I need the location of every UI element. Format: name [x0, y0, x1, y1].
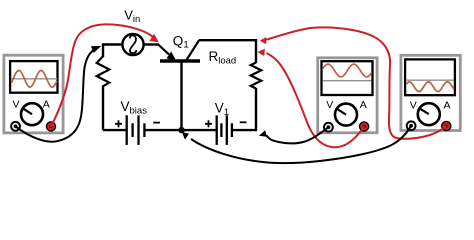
wire Vin source to Q1 emitter — [144, 43, 159, 45]
wire Rload to bottom-right corner — [233, 88, 256, 130]
wire V1 to node A — [182, 129, 216, 131]
wire left branch bottom — [102, 86, 104, 131]
probe wire black M1 to top-left corner — [16, 48, 98, 142]
instrument M1 knob — [21, 103, 43, 125]
instrument M2 knob pointer — [336, 109, 346, 115]
instrument M3 knob — [418, 103, 440, 125]
svg-text:A: A — [360, 99, 367, 111]
instrument M3 screen centerline — [406, 79, 453, 81]
probe arrow red at Rload top side — [257, 49, 265, 56]
instrument M1 waveform trace — [11, 70, 57, 87]
AC source Vin circle — [122, 34, 143, 55]
probe arrow black at node A — [182, 132, 189, 140]
instrument M1 frame — [4, 55, 63, 133]
node A junction dot — [178, 127, 184, 133]
instrument M2 frame — [318, 58, 377, 133]
transistor Q1 base lead — [180, 62, 182, 130]
probe arrow red at top-right corner — [260, 37, 266, 44]
instrument M2 knob — [335, 104, 357, 126]
instrument M3 knob pointer — [419, 108, 429, 114]
svg-text:V: V — [326, 99, 333, 111]
probe arrow black at bottom-right corner — [259, 130, 267, 137]
probe wire red M3 to top-right corner — [266, 27, 447, 138]
instrument M1 red jack — [46, 122, 55, 131]
svg-text:Vin: Vin — [124, 8, 140, 25]
battery Vbias minus sign — [153, 122, 160, 124]
wire collector to top-right corner — [199, 40, 256, 63]
instrument M2 screen — [322, 61, 373, 95]
svg-text:V: V — [13, 99, 20, 111]
svg-text:V: V — [410, 100, 417, 112]
probe arrow black at top-left corner — [91, 46, 101, 53]
transistor Q1 emitter arrow — [167, 52, 175, 60]
AC source Vin squiggle — [130, 35, 137, 53]
svg-text:Q1: Q1 — [173, 33, 189, 50]
instrument M3 red jack — [442, 121, 451, 130]
probe wire black M3 to node A — [191, 126, 411, 163]
svg-text:A: A — [444, 100, 451, 112]
battery V1 minus sign — [240, 121, 247, 123]
probe wire black M2 to bottom-right corner — [266, 127, 328, 143]
instrument M3 black jack — [407, 121, 416, 130]
svg-text:A: A — [43, 99, 50, 111]
instrument M1 black jack — [11, 122, 20, 131]
probe wire red M2 to Rload top — [267, 53, 365, 147]
instrument M1 screen centerline — [11, 78, 57, 80]
battery V1 — [217, 115, 232, 145]
transistor Q1 base bar — [160, 59, 200, 62]
instrument M2 black jack — [324, 123, 333, 132]
instrument M2 red jack — [360, 122, 369, 131]
resistor R1 (left branch) — [97, 56, 110, 86]
battery Vbias — [127, 115, 145, 145]
wire top-left from corner to Vin source — [103, 43, 122, 45]
wire node A to Vbias — [146, 129, 182, 131]
instrument M3 screen — [405, 59, 455, 95]
probe arrow red at Vin/Q1 node — [149, 34, 158, 43]
instrument M3 frame — [401, 55, 460, 130]
instrument M2 screen centerline — [323, 80, 372, 82]
svg-text:Vbias: Vbias — [121, 99, 148, 117]
battery Vbias plus sign — [115, 120, 122, 127]
instrument M2 waveform trace — [323, 64, 372, 77]
wire Vbias to bottom-left corner — [103, 129, 126, 131]
wire left branch top — [102, 43, 104, 57]
svg-text:Rload: Rload — [209, 49, 237, 67]
svg-text:V1: V1 — [215, 101, 229, 118]
instrument M3 waveform trace — [406, 82, 453, 92]
probe wire red M1 to Vin/Q1 node — [51, 24, 153, 126]
resistor Rload — [251, 63, 262, 89]
instrument M1 screen — [10, 61, 57, 93]
instrument M1 knob pointer — [23, 108, 33, 114]
transistor Q1 emitter lead — [158, 44, 170, 55]
transistor Q1 collector lead — [187, 40, 200, 60]
battery V1 plus sign — [205, 120, 212, 127]
